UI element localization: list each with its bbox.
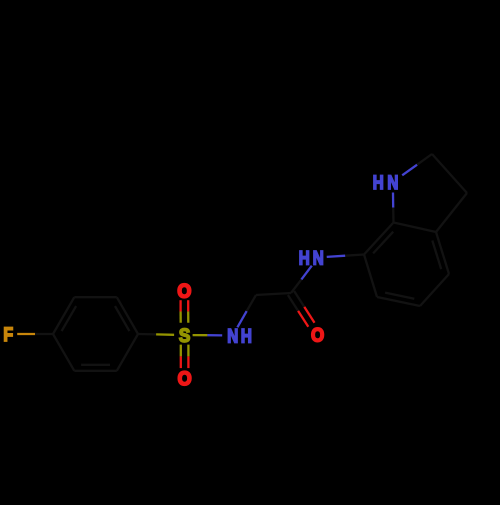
bond C5-C4 (indoline benzo) bbox=[420, 274, 449, 306]
svg-text:N: N bbox=[227, 325, 238, 347]
aromatic inner line C5=C6 bbox=[81, 364, 110, 366]
bond S-N1 bbox=[193, 334, 208, 336]
bond NR-C2p bbox=[402, 165, 417, 176]
bond C5-C6 (fluorophenyl) bbox=[74, 370, 117, 372]
svg-text:O: O bbox=[178, 367, 192, 389]
svg-text:F: F bbox=[3, 324, 13, 346]
aromatic inner line C6=C5 bbox=[385, 293, 414, 299]
bond C4-C5 (fluorophenyl) bbox=[117, 334, 138, 371]
bond C1-C2 (fluorophenyl) bbox=[53, 297, 74, 334]
aromatic inner line C3=C4 bbox=[115, 306, 129, 331]
svg-text:H: H bbox=[373, 171, 384, 193]
aromatic inner line C7=C7a bbox=[373, 232, 393, 254]
bond CC-N2 bbox=[291, 279, 301, 293]
bond C3a-C7a bbox=[394, 223, 437, 233]
bond C4-S bbox=[138, 333, 156, 336]
svg-text:N: N bbox=[387, 171, 398, 193]
C=O double bbox=[294, 291, 304, 307]
bond B-C7a bbox=[364, 223, 394, 255]
bond C6-C1 (fluorophenyl) bbox=[53, 334, 74, 371]
bond C3p-C3a bbox=[436, 193, 467, 232]
bond C7-C6 (indoline benzo) bbox=[364, 255, 377, 298]
svg-text:H: H bbox=[241, 325, 252, 347]
bond C2p-C3p bbox=[432, 154, 467, 193]
S=O bottom bbox=[187, 345, 189, 357]
svg-text:O: O bbox=[177, 280, 191, 302]
svg-text:N: N bbox=[313, 247, 324, 269]
svg-text:S: S bbox=[179, 325, 190, 346]
bond N1-V1 bbox=[237, 311, 246, 327]
bond C2-C3 (fluorophenyl) bbox=[74, 296, 117, 298]
aromatic inner line C4=C3a bbox=[432, 241, 441, 270]
bond V1-CC bbox=[256, 293, 291, 295]
bond F-C1 bbox=[17, 333, 35, 335]
svg-text:O: O bbox=[311, 324, 324, 345]
svg-text:H: H bbox=[299, 247, 310, 269]
bond C7a-NR bbox=[392, 208, 395, 223]
bond C3-C4 (fluorophenyl) bbox=[117, 297, 138, 334]
bond C4-C3a (indoline benzo) bbox=[436, 232, 449, 274]
bond N2-B bbox=[327, 256, 346, 257]
aromatic inner line C1=C2 bbox=[62, 306, 77, 331]
bond C6-C5 (indoline benzo) bbox=[377, 297, 420, 306]
S=O top bbox=[179, 312, 181, 323]
